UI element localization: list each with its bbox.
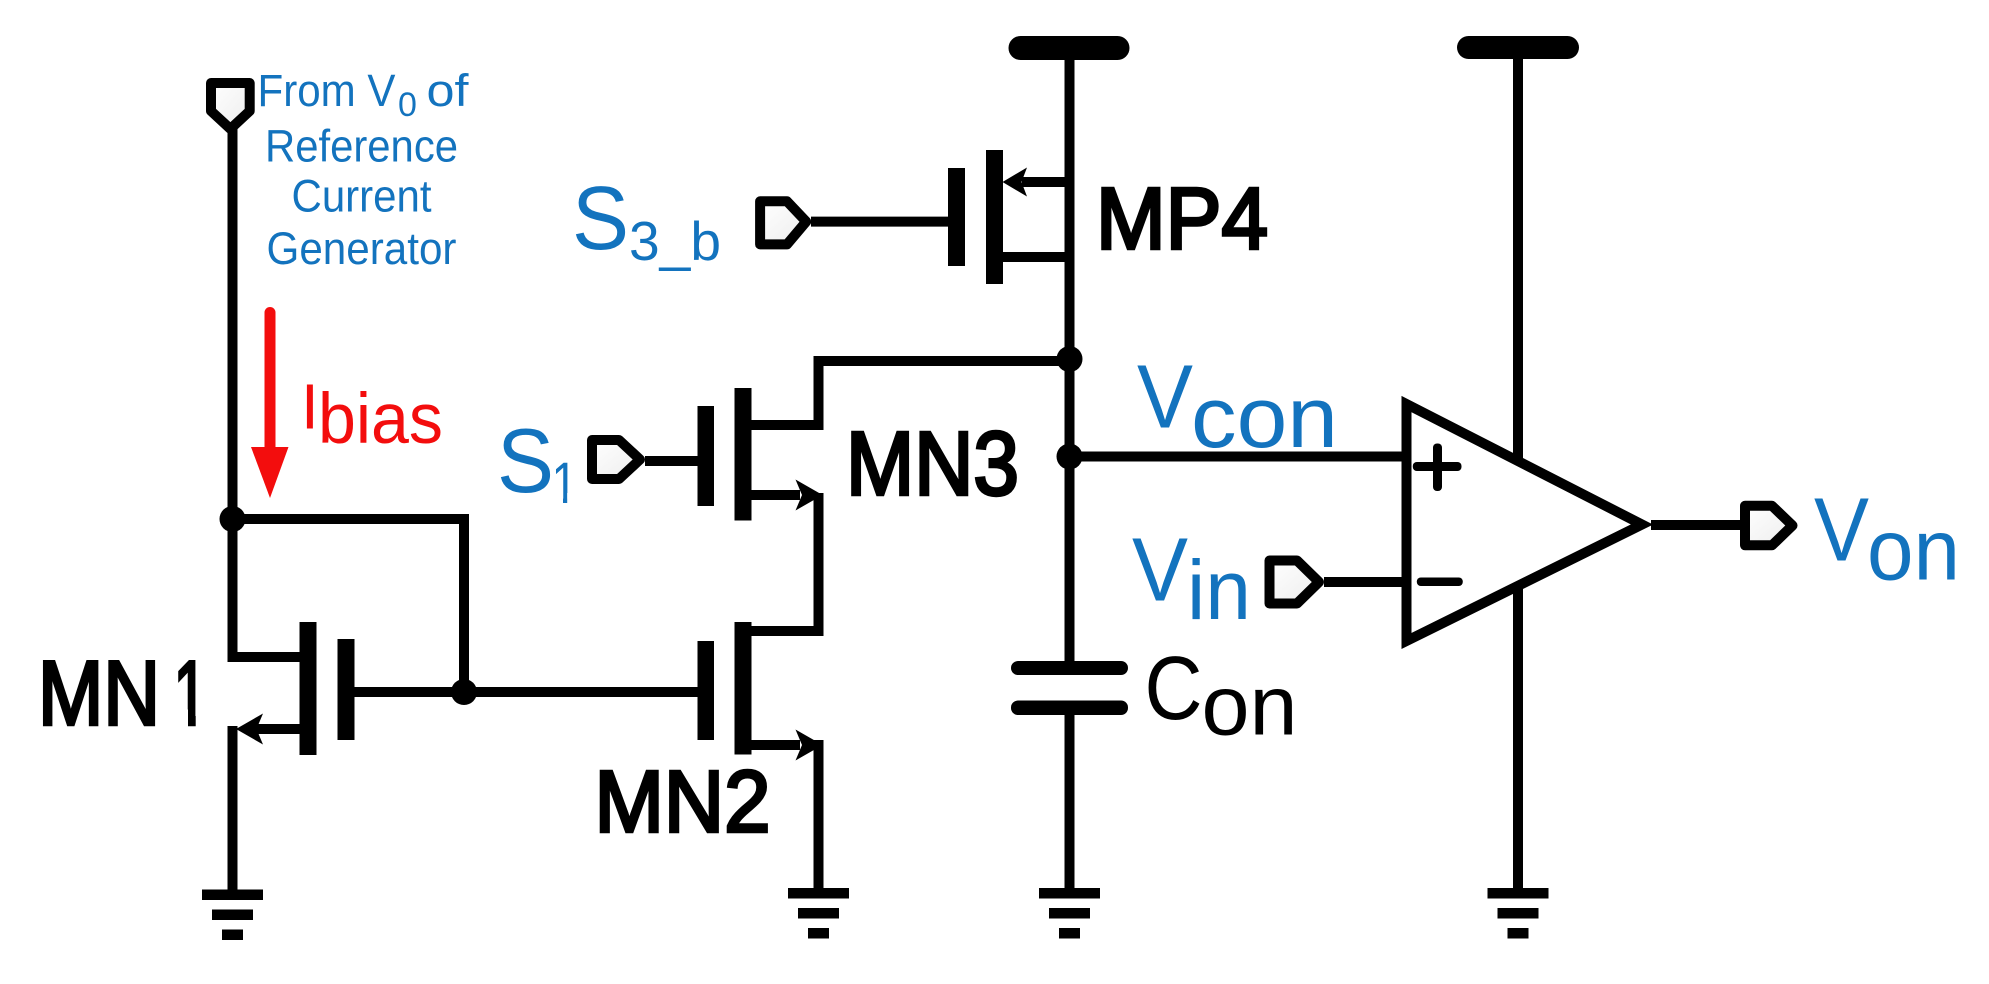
- svg-text:of: of: [427, 65, 470, 116]
- svg-text:on: on: [1867, 503, 1960, 599]
- svg-text:V: V: [1137, 347, 1193, 447]
- svg-text:1: 1: [552, 451, 578, 516]
- svg-text:S: S: [572, 169, 629, 269]
- svg-text:From V: From V: [258, 65, 396, 116]
- svg-text:on: on: [1202, 659, 1298, 753]
- svg-text:C: C: [1145, 639, 1203, 739]
- svg-text:MN: MN: [38, 644, 160, 745]
- svg-text:bias: bias: [318, 380, 443, 459]
- svg-text:Generator: Generator: [267, 223, 457, 274]
- svg-text:Current: Current: [292, 170, 432, 221]
- svg-text:con: con: [1191, 370, 1338, 466]
- svg-text:1: 1: [174, 644, 208, 745]
- svg-text:MN3: MN3: [846, 415, 1019, 515]
- svg-text:V: V: [1132, 521, 1188, 621]
- svg-text:V: V: [1814, 481, 1869, 581]
- svg-text:3_b: 3_b: [629, 210, 721, 272]
- svg-text:0: 0: [398, 86, 417, 124]
- svg-text:MN2: MN2: [595, 753, 771, 851]
- svg-text:S: S: [497, 411, 554, 512]
- svg-text:MP4: MP4: [1096, 170, 1268, 268]
- svg-text:I: I: [301, 370, 319, 442]
- svg-text:Reference: Reference: [265, 121, 458, 172]
- svg-text:in: in: [1187, 543, 1251, 637]
